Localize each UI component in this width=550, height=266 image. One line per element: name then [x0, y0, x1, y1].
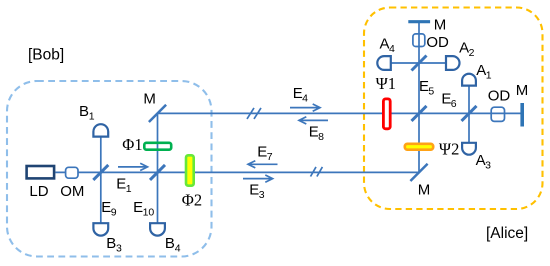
- wire top horizontal (Bob M to Alice right mirror): [158, 112, 521, 114]
- mirror M Alice right (bar): [520, 103, 524, 127]
- svg-text:4: 4: [302, 92, 308, 104]
- wire main horizontal (LD to Alice bottom mirror): [55, 171, 419, 173]
- svg-text:M: M: [418, 182, 431, 199]
- svg-text:6: 6: [451, 98, 457, 110]
- arrow E1: [118, 163, 148, 170]
- break mark top line: [247, 108, 261, 119]
- box Alice (dashed): [364, 8, 543, 210]
- svg-text:M: M: [516, 82, 529, 99]
- wave plate Psi1: [383, 99, 390, 129]
- detector A4: [377, 56, 390, 70]
- svg-text:10: 10: [143, 206, 155, 218]
- svg-text:4: 4: [389, 43, 395, 55]
- svg-text:Ψ2: Ψ2: [439, 139, 459, 158]
- svg-text:B: B: [165, 235, 175, 252]
- svg-text:5: 5: [428, 86, 434, 98]
- detector A2: [446, 56, 460, 70]
- arrow E4: [290, 104, 320, 111]
- arrow E7: [248, 161, 278, 168]
- svg-text:A: A: [380, 35, 390, 52]
- wire vertical Alice M-OD-BS-Psi2-M: [418, 22, 420, 172]
- svg-text:OM: OM: [60, 183, 84, 200]
- beamsplitter Alice right: [462, 106, 477, 121]
- svg-text:1: 1: [486, 70, 492, 82]
- svg-text:B: B: [79, 103, 89, 120]
- mirror M Alice bottom (diagonal): [410, 164, 427, 181]
- detector B3: [93, 223, 108, 235]
- svg-text:4: 4: [175, 242, 181, 254]
- mirror M Alice top (bar): [408, 20, 430, 23]
- detector A3: [462, 143, 476, 155]
- break mark bottom line: [311, 167, 323, 177]
- modulator OM: [66, 167, 78, 178]
- svg-text:[Bob]: [Bob]: [28, 47, 64, 64]
- wire horizontal A4-A2: [391, 62, 446, 64]
- beamsplitter Alice mid: [412, 106, 427, 121]
- svg-text:OD: OD: [488, 87, 511, 104]
- arrow E3: [243, 175, 273, 182]
- svg-text:2: 2: [469, 47, 475, 59]
- wire vertical B1-BS1-B3: [100, 136, 102, 223]
- svg-text:Ψ1: Ψ1: [376, 74, 396, 93]
- svg-text:8: 8: [318, 131, 324, 143]
- phase plate Phi1: [144, 143, 171, 150]
- detector B1: [93, 124, 108, 136]
- beamsplitter BS1 Bob: [93, 165, 108, 180]
- svg-text:9: 9: [111, 206, 117, 218]
- delay OD Alice right: [491, 107, 504, 121]
- svg-text:M: M: [434, 17, 447, 34]
- arrow E8: [299, 117, 328, 124]
- wire vertical A1-BS-A3: [468, 86, 470, 143]
- svg-text:LD: LD: [29, 183, 48, 200]
- delay OD Alice top: [413, 34, 425, 47]
- mirror M Bob (diagonal): [149, 105, 166, 122]
- svg-text:Φ1: Φ1: [122, 135, 142, 154]
- box Bob (dashed): [7, 81, 212, 257]
- svg-text:OD: OD: [426, 34, 449, 51]
- wire vertical M-BS2-B4: [157, 113, 159, 223]
- beamsplitter Alice top (A4/A2): [412, 56, 427, 71]
- svg-text:1: 1: [126, 183, 132, 195]
- svg-text:M: M: [143, 91, 156, 108]
- wave plate Psi2: [405, 144, 433, 150]
- laser LD: [27, 166, 54, 178]
- svg-text:3: 3: [116, 242, 122, 254]
- svg-text:3: 3: [485, 160, 491, 172]
- phase plate Phi2: [186, 155, 194, 185]
- svg-text:Φ2: Φ2: [182, 190, 202, 209]
- detector A1: [462, 74, 476, 86]
- svg-text:1: 1: [89, 111, 95, 123]
- detector B4: [150, 223, 165, 235]
- svg-text:B: B: [106, 235, 116, 252]
- svg-text:3: 3: [259, 189, 265, 201]
- svg-text:[Alice]: [Alice]: [486, 225, 528, 242]
- svg-text:7: 7: [267, 151, 273, 163]
- beamsplitter BS2 Bob: [150, 165, 165, 180]
